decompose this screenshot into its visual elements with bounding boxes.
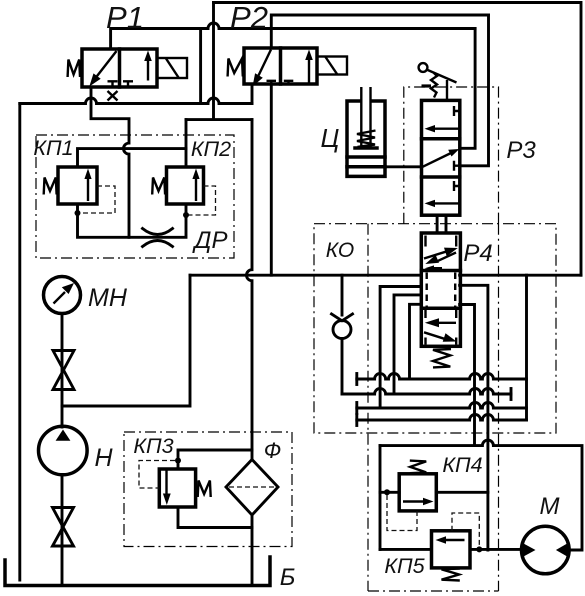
relief valve KP1 pilot line (dashed) bbox=[80, 186, 115, 213]
svg-text:Р1: Р1 bbox=[106, 0, 144, 35]
valve P4 dividers bbox=[421, 271, 460, 309]
valve P4 body (3-position, vertical) bbox=[421, 233, 460, 346]
relief valve KP5 spring (bottom) bbox=[442, 569, 460, 581]
svg-text:КО: КО bbox=[326, 239, 354, 262]
relief valve KP5 pilot line (dashed) bbox=[452, 513, 479, 546]
wire H1 y=379 plugged line from cap to vertical x=526.5 bbox=[357, 374, 527, 379]
valve P3 dividers bbox=[422, 139, 460, 177]
wire: P1 bottom-left port down, right, down to valves bottom line bbox=[91, 87, 129, 237]
relief valve KP1 arrow (up) bbox=[87, 174, 89, 201]
svg-text:КП2: КП2 bbox=[191, 137, 231, 161]
relief valve KP3 pilot line (dashed) bbox=[139, 461, 175, 489]
cylinder C spring base bbox=[355, 146, 377, 150]
wire: P2 bottom-left port down to drain line bbox=[251, 84, 254, 104]
wire: pump bottom down into tank bbox=[61, 475, 64, 584]
wire: branch x=200.6 from y=28.5 line down to drain line bbox=[199, 29, 202, 104]
end cap of H3 bbox=[355, 403, 358, 414]
wire: P3 to P4 connectors bbox=[437, 215, 446, 233]
valve P1 divider bbox=[118, 49, 122, 87]
valve P1 solenoid bbox=[157, 58, 187, 78]
end cap of H2 bbox=[510, 389, 513, 400]
wire: feedback line y=28.5 from P1 top port to vertical x=475 bbox=[111, 23, 476, 49]
valve P3 bottom square arrow (left) bbox=[433, 202, 460, 204]
wire: KP4-KP5 left loop: H5 corner down to bottom line bbox=[379, 446, 382, 550]
wire: KP3 bottom return to drain bbox=[178, 507, 252, 528]
valve P1 right square flow arrow (up) bbox=[147, 58, 149, 81]
svg-text:КП1: КП1 bbox=[33, 136, 73, 160]
wire: KP1 top riser and line y=148.6 joining KP2 riser bbox=[78, 149, 187, 167]
check valve KO seat bbox=[332, 314, 353, 321]
gauge MN circle bbox=[44, 277, 81, 314]
wire: outer feedback line from node above P2-loop to right side of P3 (top) bbox=[214, 3, 582, 276]
junction dot KP1 pilot bbox=[75, 210, 81, 216]
wire: P4 right port stub 2 and vertical x=474.5 ending at H5 bbox=[460, 305, 475, 446]
wire: cylinder output line to P3 left-middle port bbox=[385, 165, 422, 168]
dash-dot vertical border x=370.6 (KP4/KP5 box left, up to KO box) bbox=[367, 224, 369, 591]
pump N circle bbox=[39, 426, 88, 475]
shutoff valve 1 (bowtie) on riser bbox=[53, 351, 74, 371]
motor M left triangle bbox=[522, 543, 536, 558]
junction dot KP2 pilot bbox=[183, 212, 189, 218]
cylinder C spring bbox=[357, 131, 376, 148]
wire: vertical x=488.5 down to P3 right-middle port bbox=[460, 15, 489, 166]
pump N triangle (up) bbox=[56, 430, 71, 441]
motor M circle bbox=[522, 526, 570, 574]
motor M right triangle bbox=[556, 543, 569, 558]
wire: vertical x=526.5 from pressure line down to H4 bbox=[525, 275, 528, 420]
end cap of H1 bbox=[355, 374, 358, 385]
svg-text:Ф: Ф bbox=[264, 438, 282, 463]
wire: KP3 bypass branch from drain with junction dot bbox=[178, 450, 252, 469]
wire: KP4 left port line with junction dot on loop bbox=[380, 491, 399, 494]
valve P4 bottom spring bbox=[433, 349, 451, 367]
wire H2 y=394 from check valve to plugged cap right bbox=[342, 389, 511, 394]
valve P2 divider bbox=[279, 48, 283, 84]
relief valve KP3 spring bbox=[198, 481, 211, 498]
check valve KO ball bbox=[333, 321, 351, 339]
valve P4 top square arrows (crossed pair) bbox=[424, 251, 447, 258]
valve P2 solenoid bbox=[317, 57, 347, 75]
wire: filter bottom down into tank bbox=[251, 515, 254, 583]
wire: P4 right port stub and vertical x=487.9 down to bottom line bbox=[460, 285, 488, 550]
throttle DR on bottom line bbox=[143, 229, 173, 247]
valve P3 middle square diagonal arrow (up-right) bbox=[423, 153, 451, 167]
gauge MN needle bbox=[54, 292, 66, 304]
dash-dot box KP3/F assembly bbox=[124, 432, 292, 547]
valve P3 lever spring bbox=[431, 73, 437, 98]
wire: P4 left port stub 1 and vertical V1 x=380.1 ending at H3 bbox=[380, 287, 421, 409]
valve P2 spring bbox=[228, 59, 243, 77]
relief valve KP5 arrow (left) bbox=[441, 539, 465, 541]
wire: P4 left port stub 3 and vertical V3 x=409.5 ending at H1 bbox=[410, 304, 422, 379]
dash-dot box KP4/KP5 top and bottom edges bbox=[368, 590, 499, 592]
valve P1 plugged drain X mark bbox=[108, 91, 118, 101]
wire: vertical x=213.5 from outer top line down to P2 loop bbox=[212, 3, 215, 120]
svg-text:Р4: Р4 bbox=[463, 240, 492, 267]
valve P3 body (3-position, vertical) bbox=[422, 100, 460, 215]
relief valve KP2 spring bbox=[152, 178, 165, 195]
wire: pump riser from gauge MN down to pump top bbox=[61, 314, 64, 428]
wire: pressure line y=275.2 left segment to P4 left edge bbox=[190, 274, 421, 277]
filter F diamond bbox=[226, 460, 278, 516]
wire: drain from P2 loop down to filter F (hop over pressure line) bbox=[247, 120, 252, 460]
valve P3 middle square blocked T bbox=[454, 161, 460, 171]
svg-text:КП3: КП3 bbox=[133, 434, 173, 458]
valve P2 body bbox=[244, 48, 317, 84]
cylinder C piston lines bbox=[347, 157, 385, 167]
valve P3 top square blocked T bbox=[454, 106, 460, 116]
relief valve KP4 arrow (right) bbox=[403, 500, 428, 502]
dash-dot box P3 bbox=[404, 87, 499, 224]
valve P1 blocked port T marks bbox=[108, 81, 134, 87]
wire: P2 bottom-middle port long drop to pressure line bbox=[270, 84, 273, 275]
valve P4 middle square blocked T marks bbox=[427, 273, 456, 307]
wire: KP4 right port line to vertical x=487.9 bbox=[436, 491, 488, 494]
relief valve KP2 arrow (up) bbox=[195, 174, 197, 201]
junction dot KP4 left bbox=[384, 489, 390, 495]
wire: vertical x=475 down to P3 middle-right port bbox=[460, 29, 475, 149]
wire: P2 loop left side down to KP2 valve top bbox=[185, 120, 188, 167]
wire: KP5 right port line to motor left port bbox=[470, 548, 522, 551]
relief valve KP1 body bbox=[58, 167, 97, 204]
wire: drain line y=103.5 from left tank vertical to P2 bottom-left port bbox=[20, 98, 252, 104]
valve P2 right square flow arrow (up) bbox=[308, 57, 310, 84]
relief valve KP3 body bbox=[159, 469, 195, 507]
wire: valves bottom line y=237.3 with throttle gap bbox=[78, 204, 187, 237]
svg-text:Н: Н bbox=[94, 444, 113, 472]
relief valve KP2 pilot line (dashed) bbox=[189, 186, 216, 215]
valve P3 lever detent tick bbox=[422, 84, 432, 87]
valve P3 top square arrow (left) bbox=[433, 127, 460, 129]
svg-text:КП5: КП5 bbox=[384, 554, 425, 578]
wire: pressure line y=275.2 right segment from P4 right edge to outer right vertical bbox=[460, 274, 581, 277]
svg-text:МН: МН bbox=[88, 284, 128, 312]
valve P3 bottom square blocked T bbox=[454, 181, 460, 191]
valve P3 lever knob bbox=[419, 63, 428, 72]
end cap of H4 bbox=[355, 415, 358, 426]
relief valve KP1 spring bbox=[44, 178, 57, 195]
valve P1 left square flow arrow (diagonal, head lower-left) bbox=[96, 51, 117, 78]
valve P1 body bbox=[82, 49, 157, 87]
svg-text:КП4: КП4 bbox=[442, 453, 482, 477]
check valve KO branch from pressure line down to line H2 bbox=[341, 275, 344, 394]
wire: pressure line left feed down to pump riser bbox=[62, 275, 190, 406]
svg-text:Ц: Ц bbox=[321, 123, 340, 153]
wire H4 y=420 plugged line from cap to vertical x=526.5 bbox=[357, 415, 527, 420]
filter F element (dashed) bbox=[229, 486, 275, 488]
dash-dot vertical border x=498.5 (P3 box to KP4/KP5 box) bbox=[498, 224, 500, 591]
relief valve KP4 pilot line (dashed) bbox=[387, 495, 417, 531]
wire: bottom line y=549.4 from loop to KP5 left port bbox=[380, 548, 432, 551]
relief valve KP5 body bbox=[432, 531, 471, 568]
svg-text:Р3: Р3 bbox=[506, 137, 536, 164]
relief valve KP2 body bbox=[167, 167, 204, 204]
valve P2 blocked port T marks bbox=[267, 81, 294, 84]
wire H3 y=408 plugged line from cap to vertical x=526.5 bbox=[357, 403, 527, 408]
svg-text:ДР: ДР bbox=[192, 227, 228, 254]
valve P3 lever rod bbox=[446, 80, 448, 100]
wire: P2 loop (feedback node) top edge bbox=[186, 118, 252, 121]
tank B bbox=[5, 557, 270, 586]
relief valve KP3 arrow (down) bbox=[165, 470, 167, 498]
wire: feedback line y=15 from P2 top port to vertical x=488.5 bbox=[271, 15, 488, 48]
svg-text:Б: Б bbox=[280, 564, 296, 591]
dash-dot box KO assembly bbox=[314, 224, 556, 433]
junction dot KP3 top bbox=[175, 458, 181, 464]
cylinder C rod bbox=[361, 87, 370, 147]
cylinder C body bbox=[347, 101, 385, 176]
relief valve KP4 spring (top) bbox=[410, 461, 426, 474]
wire H5 y=445.6 motor feed line to right vertical and down to motor right port bbox=[380, 440, 582, 550]
relief valve KP4 body bbox=[399, 474, 436, 511]
shutoff valve 2 (bowtie) below pump bbox=[53, 508, 74, 528]
wire: P4 left port stub 2 and vertical V2 x=394 ending at H2 bbox=[394, 295, 421, 394]
svg-text:М: М bbox=[540, 493, 560, 520]
valve P2 left square flow arrow (diagonal, head lower-left) bbox=[259, 50, 272, 76]
svg-text:Р2: Р2 bbox=[230, 0, 268, 35]
dash-dot box KP1/KP2/DR assembly bbox=[36, 135, 234, 258]
junction dot KP5 right pilot bbox=[476, 546, 482, 552]
wire: left vertical drain into tank bbox=[18, 104, 21, 581]
valve P1 spring bbox=[68, 60, 80, 78]
valve P4 bottom square arrows (crossed pair) bbox=[438, 322, 456, 324]
valve P3 lever arm bbox=[427, 70, 457, 83]
